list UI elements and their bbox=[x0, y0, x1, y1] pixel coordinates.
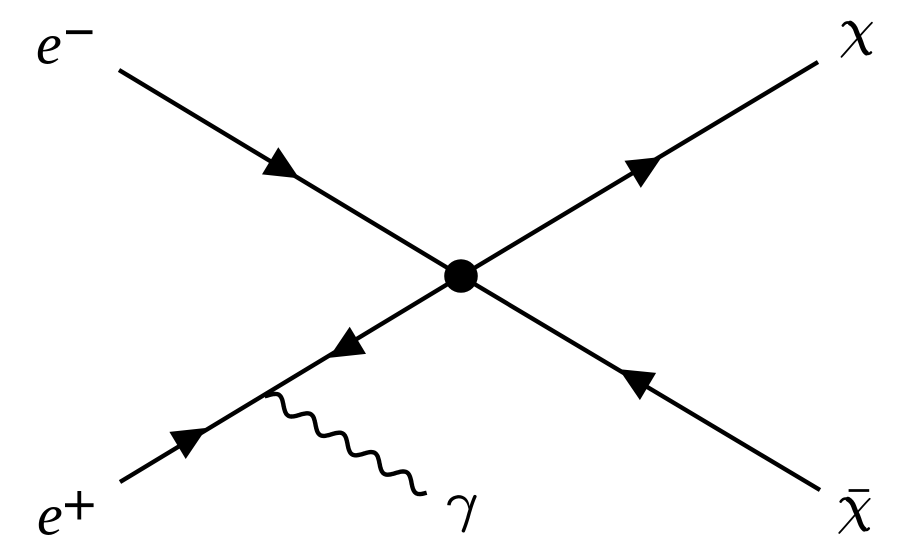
label chi bbox=[842, 22, 872, 56]
node vertex dot bbox=[444, 259, 478, 293]
arrow on chi line bbox=[625, 157, 662, 188]
label chi-bar bbox=[839, 499, 869, 533]
arrow on e+ line upper bbox=[329, 327, 366, 358]
label gamma bbox=[447, 495, 475, 531]
arrow on e+ line lower bbox=[169, 428, 206, 459]
svg-text:e: e bbox=[37, 483, 63, 548]
photon wavy line gamma bbox=[265, 394, 427, 494]
wire chi-bar outgoing line bbox=[461, 276, 820, 490]
arrow on e- line bbox=[262, 147, 299, 178]
svg-text:e: e bbox=[36, 12, 62, 77]
wire e- incoming line bbox=[119, 70, 461, 276]
wire e+ incoming line bbox=[120, 276, 461, 482]
wire chi outgoing line bbox=[461, 62, 818, 276]
arrow on chi-bar line bbox=[619, 369, 656, 400]
